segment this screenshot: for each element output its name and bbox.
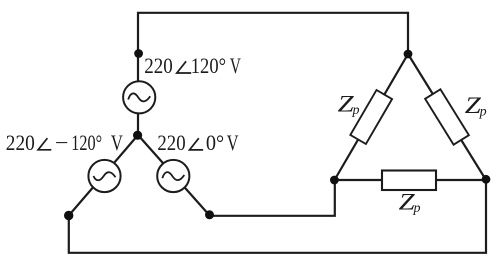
wire top rail with left and right drops xyxy=(138,13,408,135)
wire delta bottom side xyxy=(335,179,487,181)
label Zp right branch xyxy=(465,93,487,120)
label Zp bottom branch xyxy=(399,189,421,216)
ac source V1 220&#8736;120 V xyxy=(123,81,155,113)
node dot delta top vertex xyxy=(404,50,413,59)
angle symbol for phase C xyxy=(190,138,204,150)
wire from right source terminal to left delta vertex xyxy=(210,180,335,216)
svg-text:220: 220 xyxy=(144,53,173,78)
impedance Zp left (delta left branch) xyxy=(350,90,392,144)
svg-text:V: V xyxy=(227,130,239,155)
svg-text:120°: 120° xyxy=(191,53,226,78)
svg-text:220: 220 xyxy=(157,130,185,155)
svg-text:p: p xyxy=(352,103,360,118)
svg-text:p: p xyxy=(479,105,487,120)
node dot delta left vertex xyxy=(330,176,339,185)
ac source V3 220&#8736;0 V xyxy=(157,160,189,192)
ac source V2 220&#8736;-120 V xyxy=(88,160,120,192)
node dot right source terminal xyxy=(205,210,214,219)
node dot left source terminal xyxy=(64,211,73,220)
svg-text:V: V xyxy=(230,53,241,78)
wire delta left side xyxy=(335,54,409,180)
svg-text:0°: 0° xyxy=(206,130,224,155)
wire right diagonal from neutral to phase-C terminal xyxy=(138,135,210,215)
wire delta right side xyxy=(408,54,486,180)
svg-text:V: V xyxy=(111,130,123,155)
node dot neutral point xyxy=(133,131,142,140)
angle symbol for phase B xyxy=(177,61,191,73)
wire bottom rail from left terminal to right delta vertex xyxy=(69,180,486,253)
svg-text:−: − xyxy=(55,130,69,155)
svg-text:220: 220 xyxy=(6,130,35,155)
impedance Zp bottom (delta bottom branch) xyxy=(382,171,436,191)
svg-text:120°: 120° xyxy=(71,130,102,155)
svg-text:Z: Z xyxy=(338,91,354,116)
node dot delta right vertex xyxy=(482,175,491,184)
svg-text:p: p xyxy=(413,201,421,216)
node dot on top rail drop xyxy=(134,49,143,58)
label Zp left branch xyxy=(338,91,360,118)
angle symbol for phase A xyxy=(38,138,51,150)
wire left diagonal from neutral to phase-A terminal xyxy=(69,135,138,216)
impedance Zp right (delta right branch) xyxy=(425,89,469,144)
